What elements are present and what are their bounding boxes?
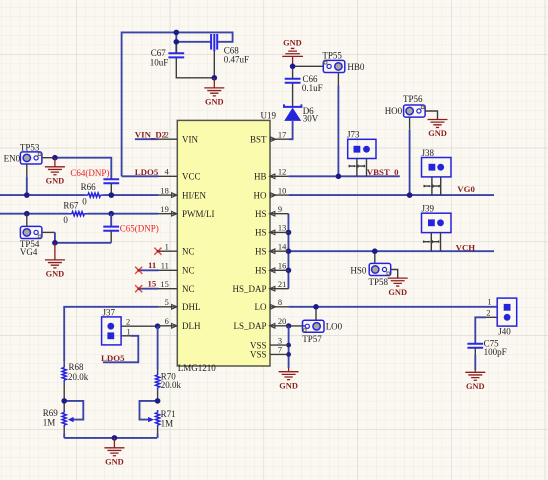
wire J37 pin2 to DLH	[121, 325, 158, 327]
U19 pin numbers	[160, 130, 287, 354]
svg-text:LDO5: LDO5	[101, 353, 125, 363]
potentiometer R69	[43, 401, 84, 438]
svg-text:21: 21	[278, 280, 286, 289]
wire GND junction to TP55	[293, 65, 324, 67]
wire DHL net	[64, 307, 158, 365]
wire TP58 up to HS net	[374, 251, 376, 263]
ground right of TP58	[388, 278, 408, 297]
wire NC11 stub	[139, 269, 159, 271]
junction dot TP58/HS	[372, 248, 378, 254]
svg-text:16: 16	[278, 262, 286, 271]
svg-text:3: 3	[278, 336, 282, 345]
wire HI/EN net	[0, 194, 159, 196]
capacitor C75	[467, 338, 506, 370]
wire LO net	[289, 306, 498, 308]
svg-text:HS: HS	[255, 266, 267, 276]
wire HS net (VCH)	[288, 250, 494, 252]
svg-text:HI/EN: HI/EN	[182, 190, 206, 200]
svg-text:LDO5: LDO5	[135, 167, 159, 177]
svg-text:0: 0	[63, 215, 68, 225]
svg-text:1: 1	[487, 298, 491, 307]
svg-text:10uF: 10uF	[150, 57, 169, 67]
wire TP53 down to HI/EN net	[26, 164, 28, 195]
U19 left pins	[159, 139, 178, 326]
svg-text:TP57: TP57	[302, 334, 322, 344]
svg-text:TP53: TP53	[20, 142, 40, 152]
junction dot DLH/R70	[155, 323, 161, 329]
svg-text:HS: HS	[255, 209, 267, 219]
wire LDO5 to VCC pin	[122, 175, 159, 177]
wire R70 to R71	[157, 390, 159, 401]
svg-text:19: 19	[160, 205, 168, 214]
svg-text:12: 12	[278, 168, 286, 177]
svg-text:EN0: EN0	[4, 154, 21, 164]
junction dots PWM/LI	[24, 211, 114, 217]
wire NC15 stub	[139, 288, 159, 290]
ground below C75	[465, 370, 485, 391]
svg-text:R66: R66	[81, 182, 97, 192]
J73 jumper marks	[349, 165, 364, 167]
wire TP57 small pin to LS_DAP net	[286, 323, 306, 328]
svg-text:14: 14	[278, 242, 287, 251]
svg-text:C64(DNP): C64(DNP)	[70, 168, 109, 178]
svg-text:5: 5	[165, 298, 169, 307]
wire TP55 down to HB net	[337, 73, 339, 177]
junction dots VSS pins	[286, 343, 291, 357]
svg-text:15: 15	[160, 280, 168, 289]
svg-text:10: 10	[278, 186, 286, 195]
capacitor C65 (DNP)	[103, 214, 159, 243]
svg-text:J37: J37	[103, 307, 116, 317]
svg-text:1M: 1M	[43, 418, 56, 428]
net label VIN_D2 + pin wire	[135, 129, 167, 139]
wire TP54 up to PWM/LI net	[26, 214, 28, 227]
svg-text:HS: HS	[255, 228, 267, 238]
svg-text:20.0k: 20.0k	[68, 372, 89, 382]
svg-text:30V: 30V	[303, 114, 319, 124]
junction dot TP54 gnd stub	[52, 240, 58, 246]
svg-text:R67: R67	[63, 201, 79, 211]
svg-text:1: 1	[165, 242, 169, 251]
connector J39	[422, 204, 452, 233]
wire TP57 up to LO net	[315, 307, 317, 320]
svg-text:0: 0	[82, 197, 87, 207]
svg-text:J38: J38	[422, 148, 435, 158]
svg-text:2: 2	[486, 309, 490, 318]
wire HB net	[289, 175, 400, 177]
junction dot bottom rail	[112, 435, 118, 441]
svg-text:HO: HO	[254, 190, 267, 200]
junction dots top rail	[174, 30, 218, 81]
junction dots R68/R70 bottoms	[61, 398, 160, 404]
test point TP57 (LO0)	[302, 320, 342, 344]
junction dot TP55/HB	[336, 174, 342, 180]
test point TP56 (HO0)	[385, 94, 425, 117]
net label LDO5 (J37)	[101, 353, 125, 363]
potentiometer R71	[140, 401, 176, 438]
svg-text:J40: J40	[498, 326, 511, 336]
connector J37	[102, 307, 131, 345]
svg-text:NC: NC	[182, 284, 195, 294]
wire HO net (VG0)	[289, 194, 494, 196]
J39 pin leads	[431, 233, 440, 252]
net label 15	[148, 279, 157, 289]
resistor R66	[81, 182, 104, 207]
ground below VSS	[279, 372, 299, 391]
wire C68 center lead down	[213, 51, 215, 78]
junction dot TP53 gnd stub	[52, 155, 58, 161]
op-amp U19 LMG1210 body	[177, 110, 276, 373]
svg-text:LMG1210: LMG1210	[178, 363, 216, 373]
svg-text:11: 11	[148, 260, 156, 270]
svg-text:HS_DAP: HS_DAP	[232, 284, 266, 294]
svg-text:NC: NC	[182, 266, 195, 276]
wire TP56 down to HO net	[409, 117, 411, 195]
svg-text:8: 8	[278, 298, 282, 307]
svg-text:LS_DAP: LS_DAP	[233, 321, 266, 331]
net label VG0	[457, 184, 475, 194]
junction dot at C66/TP55	[290, 64, 296, 70]
svg-text:2: 2	[126, 318, 130, 327]
test point TP58 (HS0)	[350, 263, 390, 286]
junction dots HS chain	[286, 230, 292, 274]
connector J38	[422, 148, 452, 177]
wire C68 left lead to LDO5 vertical	[176, 32, 211, 53]
no-ERC cross pin 15	[135, 285, 142, 292]
svg-text:VG0: VG0	[457, 184, 475, 194]
svg-text:0.1uF: 0.1uF	[302, 83, 323, 93]
ground below TP53	[45, 158, 65, 186]
svg-text:J73: J73	[347, 130, 360, 140]
connector J40	[486, 298, 516, 337]
wire TP54 small pin to GND and C65	[42, 232, 111, 242]
connector J73	[347, 130, 376, 159]
svg-text:U19: U19	[261, 110, 277, 120]
no-ERC cross pin 11	[135, 267, 142, 274]
wire TP56 small pin to GND	[425, 111, 437, 120]
junction dots HI/EN	[24, 192, 114, 198]
svg-text:7: 7	[278, 346, 282, 355]
wire PWM/LI net	[0, 213, 159, 215]
svg-text:20.0k: 20.0k	[161, 380, 182, 390]
svg-text:HS: HS	[255, 246, 267, 256]
svg-text:BST: BST	[250, 134, 267, 144]
svg-text:DLH: DLH	[182, 321, 201, 331]
J39 jumper marks	[424, 241, 439, 243]
svg-text:PWM/LI: PWM/LI	[182, 209, 215, 219]
wire TP58 small pin to GND	[391, 270, 398, 279]
svg-text:HB0: HB0	[347, 62, 365, 72]
ground right of TP56	[428, 120, 448, 139]
capacitor C68 (feedthrough)	[211, 34, 249, 64]
wire R68 to R69	[63, 383, 65, 401]
capacitor C64 (DNP)	[70, 168, 119, 195]
svg-text:VSS: VSS	[250, 350, 267, 360]
svg-text:TP58: TP58	[369, 277, 389, 287]
svg-text:1M: 1M	[161, 418, 174, 428]
svg-text:0.47uF: 0.47uF	[224, 54, 249, 64]
svg-text:VIN_D2: VIN_D2	[135, 129, 167, 139]
svg-text:13: 13	[278, 224, 286, 233]
net label LDO5 (VCC)	[135, 167, 159, 177]
svg-text:VIN: VIN	[182, 134, 198, 144]
svg-text:HS0: HS0	[350, 265, 367, 275]
svg-text:C65(DNP): C65(DNP)	[120, 224, 159, 234]
svg-text:LO0: LO0	[326, 321, 343, 331]
wire BST pin to D6	[289, 121, 293, 139]
svg-text:GND: GND	[283, 38, 302, 47]
svg-text:11: 11	[161, 262, 169, 271]
U19 pin names	[182, 134, 267, 359]
wire J37 pin1 LDO5 stub	[103, 336, 138, 363]
net label 11	[148, 260, 156, 270]
svg-text:VCC: VCC	[182, 172, 201, 182]
test point TP55 (HB0)	[322, 50, 365, 72]
svg-text:VCH: VCH	[456, 243, 476, 253]
svg-text:NC: NC	[182, 246, 195, 256]
J73 pin leads	[357, 159, 367, 177]
wire bottom rail	[64, 437, 157, 439]
resistor R68	[62, 362, 89, 383]
capacitor C66	[285, 66, 323, 93]
junction dot TP57/LO	[313, 304, 319, 310]
wire HS pins vertical tie	[287, 214, 289, 289]
svg-text:TP55: TP55	[322, 50, 342, 60]
wire LS_DAP/VSS to ground	[288, 326, 290, 372]
svg-text:17: 17	[278, 130, 286, 139]
svg-text:TP56: TP56	[403, 94, 423, 104]
wire C67 bottom to GND junction	[176, 58, 214, 78]
test point TP54 (VG4)	[20, 226, 42, 256]
svg-text:9: 9	[278, 205, 282, 214]
U19 pin direction arrows	[172, 137, 276, 328]
diode D6 (zener 30V)	[284, 83, 319, 123]
svg-text:6: 6	[165, 317, 169, 326]
svg-text:R68: R68	[69, 362, 85, 372]
ground below TP54	[45, 243, 65, 279]
wire TP53 small pin to GND and C64	[42, 158, 111, 179]
net label VCH	[456, 243, 476, 253]
svg-text:20: 20	[278, 317, 286, 326]
net label VBST_0	[367, 167, 399, 177]
U19 right pins	[270, 139, 289, 354]
resistor R67	[63, 201, 87, 226]
resistor R70	[156, 326, 182, 390]
wire J40 pin2 to C75	[475, 317, 497, 343]
test point TP53 (EN0)	[4, 142, 42, 164]
J38 pin leads	[432, 177, 441, 195]
no-ERC cross pin 1	[154, 248, 161, 255]
svg-text:100pF: 100pF	[484, 347, 507, 357]
wire LDO5 top rail	[122, 32, 233, 176]
svg-text:J39: J39	[422, 204, 435, 214]
svg-text:LO: LO	[255, 302, 267, 312]
svg-text:DHL: DHL	[182, 302, 201, 312]
capacitor C67	[150, 44, 184, 67]
svg-text:HB: HB	[254, 172, 267, 182]
ground above C66 (inverted)	[282, 38, 303, 66]
svg-text:15: 15	[148, 279, 157, 289]
junction dot TP56/HO	[407, 192, 413, 198]
J38 jumper marks	[424, 185, 439, 187]
svg-text:HO0: HO0	[385, 106, 403, 116]
ground below bottom rail	[104, 438, 124, 467]
svg-text:R69: R69	[43, 408, 59, 418]
ground below C67/C68	[204, 78, 224, 107]
svg-text:VBST_0: VBST_0	[367, 167, 399, 177]
svg-text:18: 18	[160, 186, 168, 195]
svg-text:VG4: VG4	[20, 247, 38, 257]
